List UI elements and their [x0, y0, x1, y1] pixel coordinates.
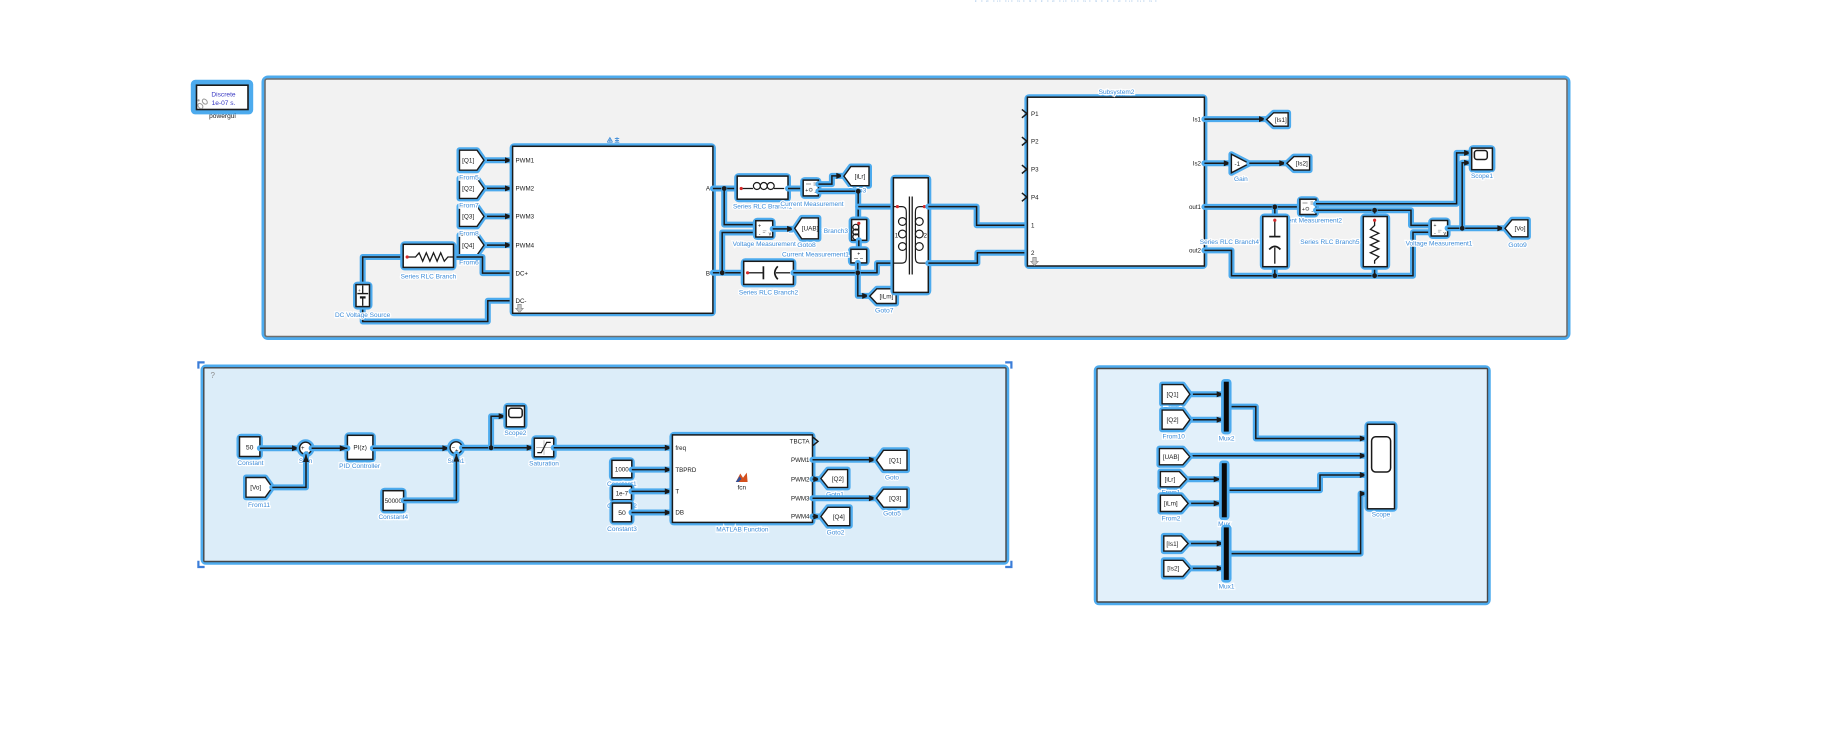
svg-text:[Q4]: [Q4] — [833, 514, 845, 521]
wire Current Measurement i to [iLr] — [818, 173, 844, 184]
svg-text:B: B — [706, 270, 710, 277]
goto tag [Is2] — [1287, 157, 1310, 171]
svg-text:DB: DB — [675, 510, 684, 517]
label Goto1 — [826, 491, 844, 498]
svg-text:PWM4: PWM4 — [791, 514, 810, 521]
svg-text:PWM2: PWM2 — [516, 186, 535, 193]
wire node B2 to [iLm] — [858, 273, 870, 299]
from tag [iLm] (scope area) — [1160, 495, 1188, 511]
svg-text:Mux1: Mux1 — [1219, 584, 1235, 591]
svg-text:powergui: powergui — [209, 113, 236, 120]
capacitor Series RLC Branch4 — [1263, 217, 1287, 267]
wire out2 bottom rail — [1204, 232, 1431, 275]
svg-text:Goto2: Goto2 — [827, 530, 845, 537]
svg-text:Goto9: Goto9 — [1508, 242, 1527, 249]
wire [Is2] to Mux1 — [1190, 565, 1225, 571]
svg-text:Current Measurement: Current Measurement — [780, 201, 843, 208]
label Series RLC Branch5 — [1300, 239, 1360, 246]
wire Constant2 to T — [632, 488, 673, 494]
svg-text:[Q3]: [Q3] — [889, 496, 901, 503]
svg-text:[Is2]: [Is2] — [1167, 566, 1179, 573]
goto tag [Vo] — [1505, 220, 1528, 237]
svg-text:From6: From6 — [459, 259, 479, 266]
label From9 (partly hidden) — [1164, 406, 1183, 413]
sum block Sum — [300, 442, 312, 455]
svg-text:Series RLC Branch2: Series RLC Branch2 — [739, 289, 799, 296]
svg-text:MATLAB Function: MATLAB Function — [716, 527, 769, 534]
from tag [iLr] (scope area) — [1160, 472, 1186, 487]
voltage measurement block Voltage Measurement1 — [1431, 221, 1447, 237]
wire Mux to Scope input 3 — [1227, 472, 1367, 490]
constant block Constant3 (50) — [612, 503, 631, 522]
current measurement block Current Measurement2 — [1300, 199, 1316, 215]
svg-text:+: + — [1433, 223, 1436, 229]
goto tag (Q4) — [821, 507, 850, 525]
container subsystem area (grey) — [265, 79, 1567, 337]
svg-text:PWM1: PWM1 — [516, 157, 535, 164]
wire A node — [713, 186, 737, 192]
label DC Voltage Source — [335, 312, 391, 319]
label Goto5 — [883, 511, 901, 518]
voltage measurement block Voltage Measurement — [756, 221, 773, 238]
wire B node — [713, 270, 744, 276]
label Scope1 — [1471, 173, 1493, 180]
label Voltage Measurement — [733, 241, 796, 248]
label Sum — [299, 458, 312, 465]
wire Gain to [Is2] — [1249, 160, 1287, 166]
from tag (Q2) — [1162, 410, 1190, 429]
label PID Controller — [339, 463, 381, 470]
label From8 — [459, 231, 479, 238]
constant block Constant4 (50000) — [383, 491, 404, 511]
wire out1 to Current Measurement2 — [1204, 204, 1300, 210]
label Scope2 — [504, 430, 526, 437]
inductor Series RLC Branch1 — [737, 176, 788, 199]
svg-text:[Vo]: [Vo] — [1514, 226, 1525, 233]
svg-text:Is1: Is1 — [1193, 116, 1202, 123]
svg-text:From2: From2 — [1162, 516, 1181, 523]
current measurement block Current Measurement1 — [851, 249, 867, 263]
svg-text:freq: freq — [675, 445, 686, 452]
svg-text:From8: From8 — [459, 231, 479, 238]
label Scope — [1372, 512, 1391, 519]
goto tag (Q1) — [877, 450, 908, 470]
wire node to Series RLC Branch3 — [855, 191, 861, 219]
svg-text:PWM3: PWM3 — [791, 495, 810, 502]
wire [UAB] to Scope input 2 — [1190, 453, 1368, 459]
svg-text:+: + — [857, 251, 860, 257]
svg-text:Current Measurement1: Current Measurement1 — [782, 251, 849, 258]
from tag [Q1] — [460, 150, 485, 170]
from tag [Q4] — [460, 235, 485, 255]
from tag [Q3] — [460, 206, 485, 226]
label From1 (partly hidden) — [1162, 490, 1181, 497]
label Sum1 — [448, 458, 465, 465]
svg-text:[Is1]: [Is1] — [1166, 541, 1178, 548]
svg-text:[Is1]: [Is1] — [1275, 117, 1287, 124]
svg-text:2: 2 — [923, 232, 927, 239]
svg-text:Series RLC Branch5: Series RLC Branch5 — [1300, 239, 1360, 246]
svg-text:Constant4: Constant4 — [378, 514, 408, 521]
wire node B to Voltage Measurement - — [722, 233, 756, 273]
scope block Scope2 — [506, 406, 524, 427]
label Series RLC Branch — [401, 274, 457, 281]
label From6 — [459, 259, 479, 266]
svg-text:+: + — [758, 224, 761, 230]
svg-text:From5: From5 — [459, 174, 479, 181]
wire node to Scope2 — [491, 413, 506, 448]
svg-text:Voltage Measurement: Voltage Measurement — [733, 241, 796, 248]
svg-text:Series RLC Branch4: Series RLC Branch4 — [1200, 239, 1260, 246]
wire Sum to PID Controller — [312, 445, 348, 451]
svg-text:[Q3]: [Q3] — [462, 214, 474, 221]
label Goto7 — [875, 307, 894, 314]
wire [Is1] to Mux1 — [1188, 541, 1224, 547]
resistor Series RLC Branch5 — [1363, 217, 1387, 267]
label Constant2 — [607, 503, 637, 510]
label Constant — [237, 460, 263, 467]
wire (faint dashed selection edge, top of canvas) — [975, 0, 1160, 2]
powergui block — [194, 83, 250, 112]
svg-text:Goto: Goto — [885, 475, 899, 482]
label Goto9 — [1508, 242, 1527, 249]
svg-text:[Q1]: [Q1] — [462, 158, 474, 165]
label From2 — [1162, 516, 1181, 523]
svg-text:PI(z): PI(z) — [353, 445, 367, 452]
svg-text:Goto5: Goto5 — [883, 511, 901, 518]
wire Mux1 to Scope input 4 — [1229, 491, 1368, 554]
gain block Gain (-1) — [1231, 154, 1249, 173]
svg-text:Series RLC Branch: Series RLC Branch — [401, 274, 457, 281]
svg-text:Saturation: Saturation — [529, 460, 559, 467]
svg-text:Goto8: Goto8 — [797, 242, 816, 249]
wire node to Scope1 input 2 — [1462, 160, 1472, 229]
label From11 — [248, 502, 270, 509]
mux block Mux1 — [1224, 527, 1229, 580]
from tag [UAB] (scope area) — [1159, 449, 1189, 465]
wire [Q4] to PWM4 — [484, 242, 513, 248]
svg-text:[iLm]: [iLm] — [879, 293, 893, 300]
svg-text:out1: out1 — [1189, 204, 1202, 211]
subsystem block 全桥 (full bridge) — [513, 146, 713, 313]
svg-text:From11: From11 — [248, 502, 270, 509]
svg-text:DC Voltage Source: DC Voltage Source — [335, 312, 391, 319]
svg-text:Constant3: Constant3 — [607, 526, 637, 533]
goto tag (Q2) — [821, 470, 848, 488]
svg-text:50000: 50000 — [385, 498, 403, 505]
svg-text:P2: P2 — [1031, 139, 1039, 146]
pid block PID Controller — [347, 435, 373, 459]
svg-text:[iLr]: [iLr] — [855, 173, 866, 180]
svg-text:PWM2: PWM2 — [791, 476, 810, 483]
svg-text:+: + — [805, 188, 808, 194]
svg-text:From10: From10 — [1162, 434, 1185, 441]
svg-text:[Q2]: [Q2] — [462, 186, 474, 193]
goto tag [Is1] — [1267, 113, 1289, 126]
container scope area (light blue) — [1097, 369, 1488, 603]
wire [Q2] to PWM2 — [484, 185, 513, 191]
label powergui — [209, 113, 236, 120]
wire Series RLC Branch5 bottom to rail — [1372, 267, 1378, 276]
annotation ? — [211, 371, 216, 380]
constant block Constant (50) — [240, 437, 260, 457]
wire PWM3 to (Q3) — [813, 495, 877, 501]
svg-text:Mux2: Mux2 — [1219, 435, 1235, 442]
wire Series RLC Branch1 to Current Measurement — [788, 186, 803, 192]
inductor Series RLC Branch3 — [852, 220, 867, 241]
label Constant4 — [378, 514, 408, 521]
svg-text:-1: -1 — [1235, 161, 1241, 168]
wire [Q3] to PWM3 — [484, 213, 513, 219]
svg-text:1000: 1000 — [615, 467, 629, 474]
label Constant1 — [607, 481, 637, 488]
svg-text:TBCTA: TBCTA — [790, 439, 811, 446]
svg-text:50: 50 — [246, 444, 254, 451]
transformer Linear Transformer — [893, 178, 928, 293]
from tag [Q2] — [460, 178, 485, 198]
svg-text:out2: out2 — [1189, 248, 1202, 255]
svg-text:Scope1: Scope1 — [1471, 173, 1493, 180]
label Voltage Measurement1 — [1406, 240, 1473, 247]
wire node to Series RLC Branch4 top — [1272, 207, 1278, 217]
label Saturation — [529, 460, 559, 467]
label Subsystem2 — [1099, 89, 1135, 96]
svg-text:DC-: DC- — [516, 298, 527, 305]
svg-text:Gain: Gain — [1234, 176, 1248, 183]
svg-text:[Q2]: [Q2] — [832, 476, 844, 483]
svg-text:P1: P1 — [1031, 111, 1039, 118]
from tag [Is1] (scope area) — [1164, 536, 1188, 551]
svg-text:Voltage Measurement1: Voltage Measurement1 — [1406, 240, 1473, 247]
svg-text:[Is2]: [Is2] — [1296, 161, 1308, 168]
wire Series RLC Branch3 to Current Measurement1 — [856, 240, 862, 249]
svg-text:TBPRD: TBPRD — [675, 467, 697, 474]
label Series RLC Branch4 — [1200, 239, 1260, 246]
svg-text:1: 1 — [895, 232, 899, 239]
wire DC Voltage Source + to Series RLC Branch — [363, 257, 404, 286]
svg-text:Scope2: Scope2 — [504, 430, 526, 437]
svg-text:P4: P4 — [1031, 194, 1039, 201]
svg-text:1e-7: 1e-7 — [616, 491, 629, 498]
svg-text:PWM1: PWM1 — [791, 457, 810, 464]
svg-text:PWM4: PWM4 — [516, 242, 535, 249]
subsystem block Subsystem2 — [1022, 97, 1205, 266]
wire [iLm] to Mux — [1188, 500, 1221, 506]
wire Voltage Measurement1 v to [Vo] — [1448, 225, 1505, 231]
container control area (light blue) with corner brackets — [198, 362, 1011, 567]
svg-text:Subsystem2: Subsystem2 — [1099, 89, 1135, 96]
svg-text:fcn: fcn — [738, 485, 747, 492]
wire Mux2 to Scope input 1 — [1229, 407, 1368, 442]
wire [Vo] to Sum - — [272, 454, 309, 487]
mux block Mux — [1222, 463, 1227, 517]
from tag [Is2] (scope area) — [1164, 560, 1190, 576]
wire Current Measurement - to node — [818, 188, 858, 194]
current measurement block Current Measurement — [803, 180, 818, 196]
label Gain — [1234, 176, 1248, 183]
junction dots — [489, 186, 1465, 450]
svg-text:[UAB]: [UAB] — [802, 226, 819, 233]
label Goto — [885, 475, 899, 482]
label Mux — [1218, 521, 1231, 528]
svg-text:Scope: Scope — [1372, 512, 1391, 519]
wire DC- return to DC Voltage Source - — [363, 301, 513, 322]
svg-text:[Q1]: [Q1] — [889, 458, 901, 465]
wire Voltage Measurement v to [UAB] — [773, 226, 795, 232]
wire PWM1 to (Q1) — [813, 457, 877, 463]
wire Constant to Sum — [260, 445, 300, 451]
label From10 — [1162, 434, 1185, 441]
wire node A to Voltage Measurement + — [724, 189, 756, 225]
label From7 — [459, 203, 479, 210]
svg-text:Constant: Constant — [237, 460, 263, 467]
label From5 — [459, 174, 479, 181]
wire transformer secondary - to Subsystem2 port 2 — [928, 253, 1027, 263]
capacitor Series RLC Branch2 — [744, 261, 794, 284]
wire Saturation to freq — [554, 445, 673, 451]
wire Current Measurement1 to node B2 — [855, 263, 861, 273]
resistor Series RLC Branch — [403, 244, 453, 267]
wire Constant3 to DB — [632, 510, 673, 516]
goto tag [iLm] — [870, 289, 896, 304]
svg-text:Is2: Is2 — [1193, 161, 1202, 168]
svg-text:PID Controller: PID Controller — [339, 463, 381, 470]
label Series RLC Branch1 — [733, 203, 793, 210]
svg-text:50: 50 — [618, 510, 626, 517]
scope block Scope — [1367, 424, 1394, 509]
matlab function block MATLAB Function — [672, 435, 818, 523]
constant block Constant1 (1000) — [612, 460, 632, 478]
label Goto3 — [848, 187, 867, 194]
wire Series RLC Branch to DC+ — [454, 257, 513, 273]
wire node B2 to transformer primary - — [793, 263, 893, 273]
svg-text:?: ? — [211, 371, 216, 380]
wire PWM2 to (Q2) — [813, 476, 821, 482]
from tag [Vo] — [246, 478, 272, 498]
svg-text:Goto7: Goto7 — [875, 307, 894, 314]
wire Current Measurement2 - to Voltage Measurement1 + — [1316, 210, 1431, 225]
label MATLAB Function — [716, 527, 769, 534]
label Goto2 — [827, 530, 845, 537]
svg-text:[iLm]: [iLm] — [1164, 501, 1178, 508]
svg-text:+: + — [358, 288, 361, 293]
wire [Q1] to PWM1 — [484, 157, 513, 163]
wire PID Controller to Sum1 — [373, 445, 450, 451]
svg-text:T: T — [675, 489, 679, 496]
label Current Measurement1 — [782, 251, 849, 258]
wire (Q2) to Mux2 — [1190, 417, 1224, 423]
saturation block Saturation — [534, 438, 553, 457]
label Series RLC Branch2 — [739, 289, 799, 296]
svg-text:P3: P3 — [1031, 167, 1039, 174]
wire PWM4 to (Q4) — [813, 514, 821, 520]
svg-text:2: 2 — [1031, 250, 1035, 257]
wire Constant1 to TBPRD — [632, 467, 673, 473]
label Current Measurement2 — [1275, 218, 1342, 225]
svg-text:[iLr]: [iLr] — [1165, 477, 1176, 484]
svg-text:[Q2]: [Q2] — [1166, 417, 1178, 424]
wire [iLr] to Mux — [1186, 476, 1221, 482]
from tag (Q1) — [1162, 385, 1190, 404]
goto tag [UAB] — [795, 218, 819, 239]
wire node to transformer primary + — [858, 204, 893, 210]
label Constant3 — [607, 526, 637, 533]
label Goto8 — [797, 242, 816, 249]
svg-text:[Q1]: [Q1] — [1166, 392, 1178, 399]
svg-text:From7: From7 — [459, 203, 479, 210]
svg-text:[Vo]: [Vo] — [250, 485, 261, 492]
sum block Sum1 — [450, 442, 462, 455]
svg-text:[UAB]: [UAB] — [1163, 454, 1180, 461]
label Mux2 — [1219, 435, 1235, 442]
dc source DC Voltage Source — [356, 285, 370, 307]
title 全桥 — [607, 137, 619, 142]
goto tag [iLr] — [844, 167, 869, 186]
wire Series RLC Branch4 bottom to rail — [1272, 267, 1278, 276]
svg-text:1e-07 s.: 1e-07 s. — [212, 100, 236, 107]
wire node to Series RLC Branch5 top — [1372, 210, 1378, 216]
wire Current Measurement2 i to Scope1 input 1 — [1316, 150, 1472, 204]
goto tag (Q3) — [877, 489, 908, 507]
wire Is2 to Gain — [1204, 160, 1231, 166]
wire transformer secondary + to Subsystem2 port 1 — [928, 207, 1027, 226]
svg-text:Discrete: Discrete — [211, 91, 236, 98]
wire (Q1) to Mux2 — [1190, 391, 1224, 397]
scope block Scope1 — [1472, 148, 1493, 170]
label Current Measurement — [780, 201, 843, 208]
constant block Constant2 (1e-7) — [612, 486, 631, 500]
label Mux1 — [1219, 584, 1235, 591]
wire Constant4 to Sum1 — [404, 454, 460, 500]
svg-text:DC+: DC+ — [516, 270, 529, 277]
svg-text:1: 1 — [1031, 222, 1035, 229]
svg-text:+: + — [1302, 207, 1305, 213]
svg-text:PWM3: PWM3 — [516, 214, 535, 221]
wire Is1 to [Is1] — [1204, 116, 1266, 122]
svg-text:[Q4]: [Q4] — [462, 242, 474, 249]
mux block Mux2 — [1224, 382, 1229, 432]
label Series RLC Branch3 — [789, 228, 849, 235]
wire Sum1 to Saturation — [462, 445, 534, 451]
